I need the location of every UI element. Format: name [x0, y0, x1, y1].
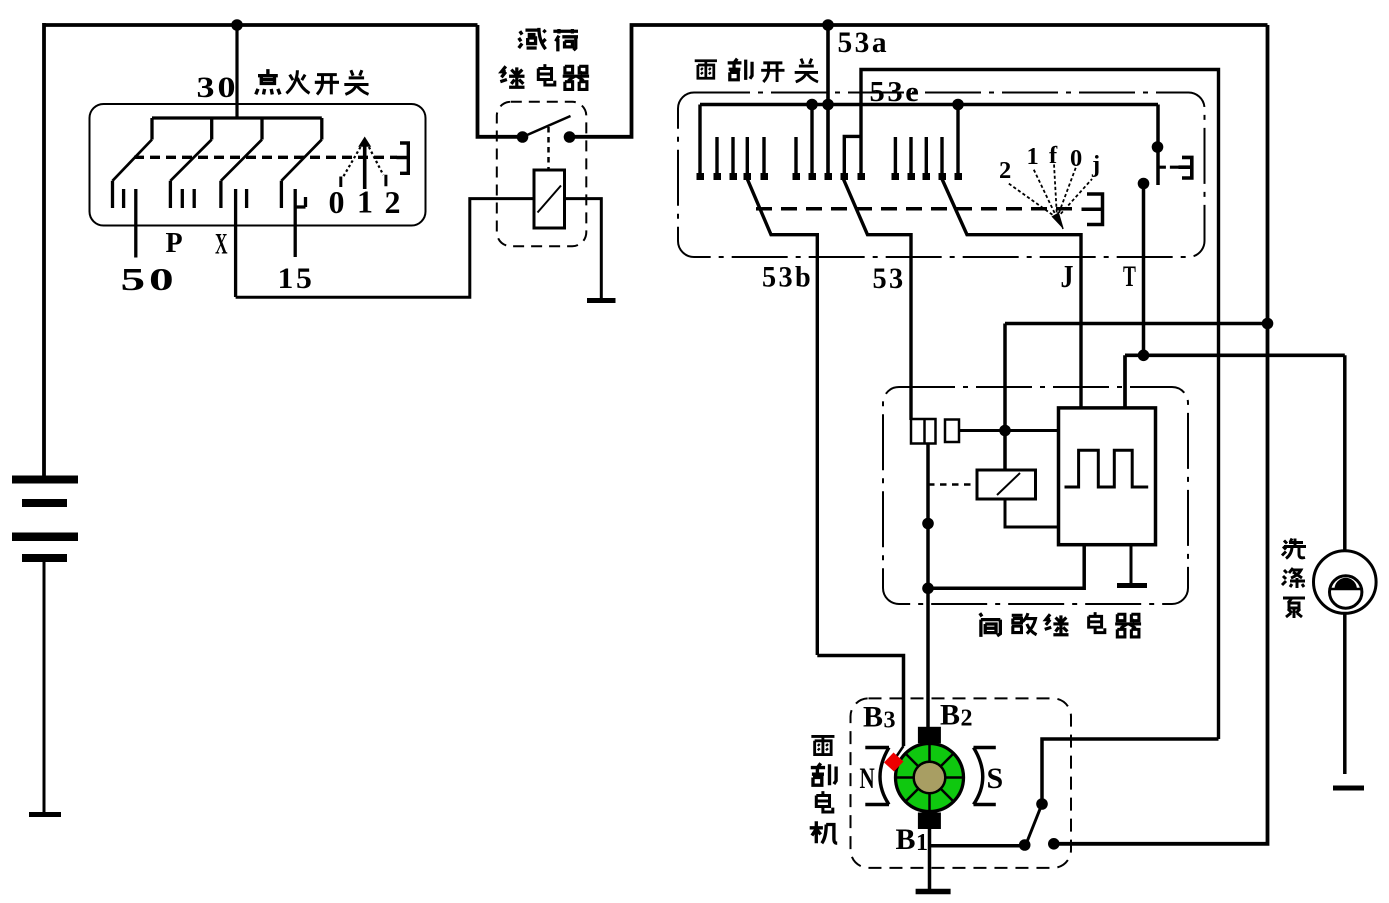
svg-text:2: 2: [961, 706, 976, 732]
contact feet: [697, 173, 963, 180]
wire: coil right to ground: [565, 199, 602, 298]
wire: 53e line: [861, 70, 1219, 740]
svg-text:2: 2: [385, 184, 404, 220]
svg-text:53: 53: [873, 262, 906, 295]
svg-text:2: 2: [999, 157, 1014, 184]
svg-text:T: T: [1123, 260, 1138, 293]
motor spokes: [896, 744, 964, 812]
wiper switch S2 dash-dot box: [678, 93, 1205, 258]
label: load relay line2: [500, 66, 524, 87]
selector arrow: [363, 143, 367, 189]
contact ticks row2: [895, 137, 942, 174]
connector contact rects: [911, 419, 936, 444]
wire: right outer drop to motor switch: [1054, 25, 1268, 844]
label: wiper motor (vertical): [811, 736, 834, 754]
svg-text:P: P: [166, 228, 186, 259]
node: park switch pivot: [1036, 798, 1048, 810]
label: load relay line1: [519, 28, 546, 49]
svg-text:53e: 53e: [870, 76, 922, 108]
svg-text:S: S: [987, 762, 1006, 795]
pulse unit U2: [1059, 408, 1156, 545]
node: relay left contact: [517, 131, 529, 143]
node: park switch right contact: [1048, 838, 1060, 850]
right switch tick and dash: [1158, 166, 1179, 169]
svg-text:53a: 53a: [838, 26, 890, 59]
svg-text:30: 30: [197, 71, 239, 104]
wire: T drop: [1142, 184, 1146, 356]
wire: battery to ground: [43, 560, 46, 813]
motor M1 dashed box: [851, 698, 1072, 868]
motor core: [914, 762, 946, 794]
wire: top bus left (battery to relay): [44, 23, 478, 27]
wire: coil bottom to pulse unit: [1005, 499, 1059, 527]
label: washer pump (vertical): [1282, 539, 1306, 559]
wire: ignition bus: [152, 116, 322, 119]
park switch arm: [1027, 804, 1043, 843]
node: T contact: [1138, 178, 1150, 190]
svg-text:B: B: [940, 699, 963, 732]
wiper arm 53b: [747, 179, 817, 655]
relay switch arm: [523, 116, 571, 137]
node: T junction: [1138, 350, 1150, 362]
node: 1005 junction: [999, 425, 1011, 437]
wire: T horizontal to pump: [1125, 355, 1345, 408]
contact ticks row1: [717, 137, 796, 174]
wiper right switch leg: [1156, 105, 1160, 186]
wire: 1005 drop into box: [1003, 324, 1007, 471]
svg-text:B: B: [896, 823, 919, 856]
wire: bus drops: [152, 118, 322, 140]
node: 53a junction: [822, 19, 834, 31]
svg-text:15: 15: [278, 262, 315, 295]
wire: B1 down to ground: [928, 829, 932, 890]
wire: B1 horizontal to park switch: [930, 844, 1025, 848]
node: relay right contact: [564, 131, 576, 143]
square wave symbol: [1065, 450, 1149, 487]
selector fan lines: [1008, 164, 1092, 218]
svg-text:0: 0: [329, 184, 348, 220]
wiper dashed travel line: [756, 207, 1076, 211]
svg-text:0: 0: [1070, 145, 1085, 172]
tall legs from bus: [812, 105, 958, 175]
svg-text:N: N: [860, 762, 877, 795]
wiper arm J: [942, 179, 1081, 408]
selector fan arrowhead: [1052, 213, 1063, 229]
wiper arm 53: [843, 179, 911, 420]
contact 15 hook: [295, 197, 305, 207]
intermittent relay K2 dash-dot box: [883, 387, 1188, 604]
wire: battery drop: [42, 23, 46, 476]
washer pump M2: [1343, 355, 1347, 550]
ignition switch U1 box: [90, 104, 426, 226]
node: dot on 53/B2 line: [922, 518, 934, 530]
svg-text:j: j: [1091, 151, 1103, 178]
node: park switch left contact: [1019, 839, 1031, 851]
right switch bracket: [1179, 157, 1192, 178]
ground: motor: [916, 889, 951, 895]
wire: bus left leg: [698, 105, 701, 175]
wire: pulse bottom left exit: [928, 545, 1084, 589]
svg-text:1: 1: [1027, 143, 1042, 170]
wire: 53a drop: [826, 25, 830, 174]
ground: washer pump: [1333, 786, 1364, 791]
wire: relay right to top bus: [570, 25, 1268, 137]
ground: battery: [29, 812, 61, 817]
TEXT LABELS: [121, 26, 1138, 297]
battery: [12, 476, 78, 563]
red index wedge: [884, 753, 904, 772]
motor armature ring: [896, 744, 964, 812]
brush N: [865, 748, 889, 805]
dashed link contact to coil: [928, 483, 977, 486]
wiper middle bracket: [1082, 194, 1103, 225]
motor terminals: [918, 727, 941, 744]
ground: relay: [587, 298, 616, 303]
selector dotted legs: [343, 147, 384, 178]
relay coil K2: [977, 470, 1036, 499]
wire: rect2 to pulse unit: [959, 429, 1059, 432]
wire: pivot up and across to 53e line: [1042, 739, 1219, 804]
svg-text:B: B: [863, 701, 886, 734]
node: bus dots: [806, 99, 818, 111]
contact ticks: [124, 189, 296, 297]
wire: pulse ground: [1130, 545, 1133, 583]
relay K1 (load reduction) dashed box: [497, 102, 587, 246]
node: top junction battery/ignition: [231, 19, 243, 31]
label: wiper switch: [695, 61, 717, 78]
svg-text:1: 1: [357, 184, 376, 220]
ground: pulse unit: [1117, 583, 1147, 588]
label: intermittent relay: [980, 613, 1001, 637]
svg-text:3: 3: [884, 708, 899, 734]
blade stubs: [113, 181, 282, 208]
wire: 53 below contact down to motor: [926, 444, 930, 728]
svg-text:X: X: [215, 228, 229, 261]
wire: X contact to relay coil: [236, 199, 534, 298]
ignition right bracket: [397, 143, 409, 173]
svg-text:f: f: [1049, 142, 1060, 169]
label: ignition switch: [256, 69, 280, 94]
dashed travel line: [134, 156, 397, 159]
wire: relay left feed down: [478, 25, 523, 137]
relay actuator dashed link: [547, 127, 550, 170]
wire: 53b to motor third brush: [817, 656, 903, 747]
brush S: [974, 748, 996, 805]
svg-text:J: J: [1061, 258, 1076, 294]
wire: wiper bus: [700, 103, 1158, 106]
wire: 53e step branch: [844, 136, 861, 174]
node: right switch top: [1152, 141, 1164, 153]
wire: net at y=324: [1005, 322, 1268, 326]
switch blades (diagonals): [113, 140, 322, 181]
svg-text:53b: 53b: [762, 261, 813, 294]
node: dot junction B2: [922, 583, 934, 595]
svg-text:50: 50: [121, 261, 178, 297]
node: y324 right: [1262, 318, 1274, 330]
svg-text:1: 1: [916, 830, 931, 856]
wire: 30 drop: [235, 25, 238, 118]
relay coil K1: [534, 170, 565, 228]
